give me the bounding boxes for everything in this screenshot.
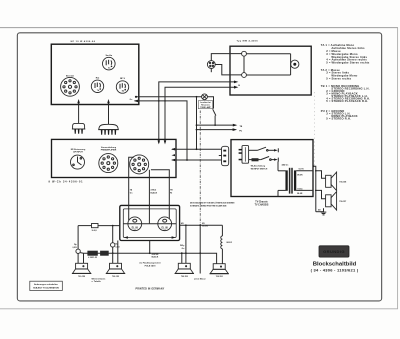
svg-text:BLUE: BLUE <box>297 193 303 195</box>
svg-text:SUBJECT TO ALTERATION: SUBJECT TO ALTERATION <box>33 287 59 290</box>
svg-text:BLACK: BLACK <box>151 192 158 195</box>
tube V11 output <box>150 217 177 232</box>
drawing border frame <box>17 33 381 301</box>
wire IF line 2 U2 to box U3 <box>164 86 239 145</box>
connector P3 DIN plug side view <box>219 146 229 165</box>
wire U5 bottom-center to bus <box>150 241 159 259</box>
wire A into U1 with junction dot <box>135 96 202 98</box>
switch S3 blade <box>213 109 216 115</box>
junction dot node TB <box>214 124 216 126</box>
page top edge <box>0 27 398 29</box>
wire V5 top to U2 node A <box>211 54 241 61</box>
wire chassis line continuation down <box>199 225 201 273</box>
svg-text:PREAMPLIFIER: PREAMPLIFIER <box>101 149 117 152</box>
stub V5 bottom <box>210 68 212 72</box>
double arrow inside U5 bottom <box>124 236 176 238</box>
svg-text:Gn-Ws: Gn-Ws <box>202 226 208 228</box>
block U4 TV chassis box <box>231 140 313 197</box>
transformer T1 <box>278 162 295 197</box>
wire speaker bus <box>80 253 216 264</box>
wire Rp2 vertical to speaker LS2 <box>112 226 114 264</box>
lamp L1 (circle with X) <box>202 94 208 100</box>
wire U5 left output with fuse F1 <box>78 224 120 233</box>
label J4 switch text <box>251 165 268 171</box>
page bottom edge <box>0 308 398 310</box>
chassis boundary dash-dot line <box>199 111 201 226</box>
svg-text:Rt: Rt <box>170 192 172 195</box>
block U2 tuner box <box>230 46 311 95</box>
junction dot on pin1 wire <box>196 148 198 150</box>
node stub at U4 right edge <box>313 165 315 167</box>
svg-text:34Ω Gn: 34Ω Gn <box>282 163 290 166</box>
svg-text:TB: TB <box>240 126 243 128</box>
wire P2 to U1 with up arrow <box>107 99 110 124</box>
note viewing direction (2 lines) <box>190 202 235 208</box>
scan artifact dotted line <box>314 92 316 168</box>
svg-text:5 = STEREO R.H.: 5 = STEREO R.H. <box>326 117 351 121</box>
tube V8 preamplifier <box>99 146 118 173</box>
svg-text:TUNE LAMP: TUNE LAMP <box>200 106 211 109</box>
svg-text:Rat: Rat <box>96 77 100 80</box>
svg-text:Si 0,8: Si 0,8 <box>92 230 97 232</box>
wire T1 secondary top lead <box>296 170 313 172</box>
wire PU arrow <box>197 128 243 132</box>
svg-text:BLACK: BLACK <box>152 256 159 259</box>
svg-text:NF-Entzerrung: NF-Entzerrung <box>71 148 86 151</box>
box subject to alteration <box>30 281 63 290</box>
wire junction vertical at V6 <box>290 54 292 75</box>
svg-text:TB-Anschaltung: TB-Anschaltung <box>251 165 266 168</box>
svg-text:Gl: Gl <box>238 85 240 87</box>
label 4 ohm at U5 right <box>181 222 184 225</box>
terminal circle Rp2 <box>111 243 121 249</box>
wire IF line 1 U2 to box U3 <box>158 81 239 145</box>
tube V3 (Ratio) <box>91 77 103 93</box>
wire TB arrow <box>197 124 243 128</box>
svg-text:L 5031-23: L 5031-23 <box>88 257 98 259</box>
arrow chevrons mid <box>172 154 176 156</box>
speaker LS4 <box>210 264 229 279</box>
junction dot at chassis line <box>199 224 201 226</box>
svg-text:PU: PU <box>239 130 242 132</box>
speaker LS2 <box>106 263 125 278</box>
wire U3 to U5 drop 3 <box>151 170 173 219</box>
svg-text:4Ω: 4Ω <box>318 208 321 211</box>
svg-text:7b: 7b <box>97 90 100 92</box>
svg-text:Gn: Gn <box>182 248 185 250</box>
wire label Diff at U1 right edge <box>130 99 133 101</box>
wire LS3 drop <box>180 225 186 263</box>
svg-text:Bereich: Bereich <box>66 75 75 77</box>
svg-text:700-157: 700-157 <box>339 201 346 203</box>
junction dots on wire B crossings <box>158 100 166 102</box>
svg-text:700-155: 700-155 <box>181 276 188 278</box>
svg-text:POLE 1470: POLE 1470 <box>145 264 157 267</box>
svg-text:PRINTED IN GERMANY: PRINTED IN GERMANY <box>136 288 165 291</box>
resistor R2 <box>100 251 109 256</box>
block U5 output stage box (double border) <box>120 205 180 240</box>
tube V4 (NF) <box>116 78 128 93</box>
svg-text:Sw-Ha: Sw-Ha <box>105 55 112 57</box>
label at junction <box>202 223 208 228</box>
switch S2 in U4 <box>249 157 279 162</box>
label U2 type number <box>237 40 259 43</box>
svg-text:0,5Ω: 0,5Ω <box>72 247 77 249</box>
svg-text:5 = Stereo rechts: 5 = Stereo rechts <box>326 77 351 81</box>
label U3 type number <box>49 180 84 183</box>
junction dots on return vertical <box>315 170 317 191</box>
wire U5 bottom-left to LS2 <box>117 241 119 264</box>
connector P1 (3-pin plug) <box>72 123 85 133</box>
junction dots on vertical <box>196 124 198 130</box>
wire U3 to U5 drop 1 <box>129 157 134 220</box>
svg-text:TA: TA <box>130 189 133 192</box>
svg-text:Änderungen vorbehalten: Änderungen vorbehalten <box>34 283 58 286</box>
svg-text:4 x Flachlautsprecher: 4 x Flachlautsprecher <box>139 261 161 264</box>
svg-text:Gn: Gn <box>130 99 133 101</box>
svg-text:TV CHASSIS: TV CHASSIS <box>255 203 269 206</box>
svg-text:4 SPKR: 4 SPKR <box>152 253 159 256</box>
svg-text:SCHEMATIC VIEWED FROM THE SOLD: SCHEMATIC VIEWED FROM THE SOLDER SIDE <box>190 205 227 208</box>
wire node A to tube V6 <box>246 53 290 55</box>
svg-text:8b: 8b <box>122 91 125 93</box>
wire T1 secondary bottom lead <box>296 189 313 191</box>
svg-text:700-153: 700-153 <box>112 276 119 278</box>
svg-text:TB: TB <box>170 190 173 192</box>
svg-text:6a: 6a <box>108 67 111 69</box>
svg-text:Gn: Gn <box>130 193 133 195</box>
ground symbol right <box>316 208 327 215</box>
wire U5 right output <box>180 224 223 226</box>
svg-text:Ws/Rt: Ws/Rt <box>297 174 303 177</box>
wire U3 to U5 drop 2 <box>149 170 157 224</box>
wire P1 to U1 with up arrow <box>77 99 80 123</box>
speaker LS6 <box>326 192 347 211</box>
wire plug P3 pin3 to U3 (left arrow) <box>171 159 222 162</box>
wire V5 right to U2 node B <box>215 65 241 75</box>
speaker LS5 <box>326 172 347 191</box>
speaker LS3 <box>175 263 194 278</box>
wire into speaker LS5 <box>316 171 326 178</box>
svg-text:5 = Wiedergabe Stereo rechts: 5 = Wiedergabe Stereo rechts <box>326 61 370 65</box>
wire S1 feeds <box>78 253 83 263</box>
svg-text:700-158: 700-158 <box>339 181 346 183</box>
svg-text:Gn/Ye: Gn/Ye <box>299 169 304 171</box>
tube V9 driver <box>130 155 149 174</box>
block U3 preamplifier box <box>52 139 177 177</box>
note printed in germany <box>136 288 165 291</box>
svg-text:( 34 - 4306 - 1103/621 ): ( 34 - 4306 - 1103/621 ) <box>311 267 359 272</box>
wire lamp to switch S3 <box>207 97 213 109</box>
junction dot LS3 feed <box>185 224 187 226</box>
wire switch S3 to node TB <box>214 116 216 126</box>
svg-text:4Ω: 4Ω <box>181 222 184 225</box>
svg-text:WGy: WGy <box>180 245 185 247</box>
label at U2 input <box>238 85 240 87</box>
note flat speakers <box>139 261 161 267</box>
label U1 type number <box>71 40 96 43</box>
wire color labels at T1 <box>297 169 304 196</box>
label resistors <box>88 257 98 259</box>
note further data <box>92 277 107 283</box>
svg-text:Ye/Gn: Ye/Gn <box>297 189 303 191</box>
resistor R4 in U4 <box>252 158 259 161</box>
svg-text:700-152: 700-152 <box>216 276 223 278</box>
wire LS3 bus drop <box>181 252 183 263</box>
svg-text:700-159: 700-159 <box>78 276 85 278</box>
tube V7 AF input <box>71 148 86 169</box>
title drawing number <box>311 267 359 272</box>
tube V1 (tuning indicator, 9 pins) <box>61 75 80 96</box>
svg-text:Rp: Rp <box>74 244 77 246</box>
tube V10 output <box>123 217 149 232</box>
wire between node A and node B <box>243 56 245 73</box>
svg-text:5 = STEREO PLAYBACK R.H.: 5 = STEREO PLAYBACK R.H. <box>326 99 368 103</box>
choke L1 <box>221 225 233 263</box>
wire return vertical right of U4 <box>313 166 315 211</box>
title Blockschaltbild <box>313 262 357 268</box>
junction dots on bus <box>112 252 201 254</box>
svg-text:9Ω: 9Ω <box>202 223 205 225</box>
tube V5 mixer <box>207 61 215 69</box>
svg-text:AF INPUT: AF INPUT <box>73 151 83 154</box>
speaker LS1 <box>72 263 91 278</box>
label above transformer <box>282 163 290 166</box>
label chassis ground <box>194 277 206 280</box>
switch S1 in U4 <box>249 147 279 152</box>
resistor R1 <box>87 251 97 256</box>
block U1 IF amplifier box <box>51 44 139 104</box>
svg-text:Leiste Masse: Leiste Masse <box>194 277 206 280</box>
svg-text:TV-Chassis: TV-Chassis <box>255 201 268 203</box>
node A terminal circle in U2 <box>242 51 247 56</box>
label U4 TV chassis <box>255 201 269 206</box>
connector J4 socket in U4 <box>239 146 249 164</box>
svg-text:9 W-Ch 34-4306-01: 9 W-Ch 34-4306-01 <box>49 180 84 183</box>
svg-text:4 Watt: 4 Watt <box>151 189 157 192</box>
wire node B to tube V6 <box>246 74 290 76</box>
legend pin list <box>321 43 370 120</box>
svg-text:GRUNDIG: GRUNDIG <box>323 249 345 254</box>
wire drop to terminal Rp1 <box>77 226 79 250</box>
svg-text:Typ MW 4-4306: Typ MW 4-4306 <box>237 40 259 43</box>
page right edge <box>397 28 399 309</box>
terminal circle Rp1 <box>72 244 80 253</box>
svg-text:Weitere Daten: Weitere Daten <box>92 277 107 280</box>
svg-text:NF-V: NF-V <box>120 78 126 80</box>
svg-text:HF 10 W-4306-66: HF 10 W-4306-66 <box>71 40 96 43</box>
junction dot lamp node <box>196 96 198 98</box>
wire plug P3 pin1 to U3 (left arrow) <box>171 148 222 151</box>
svg-text:Vorverstärkung: Vorverstärkung <box>101 146 117 149</box>
junction dot left drop <box>112 225 114 227</box>
wire into speaker LS6 <box>316 190 326 198</box>
tube V6 oscillator <box>291 60 299 68</box>
wire vertical lamp node down to U3 wire <box>196 97 198 149</box>
wire B into U1 (left arrow) <box>134 100 187 160</box>
connector P2 (5-pin plug) <box>98 124 119 134</box>
label box for lamp L1 <box>198 101 212 109</box>
tube V2 (Sw-Ha) <box>103 55 116 70</box>
junction dot wire B end <box>186 159 188 161</box>
svg-text:800 Ω: 800 Ω <box>227 242 233 244</box>
svg-text:TB INPUT SWITCH: TB INPUT SWITCH <box>251 168 268 170</box>
node B terminal circle in U2 <box>242 73 247 78</box>
logo badge <box>319 246 349 257</box>
svg-text:DIE SCHALTUNG IST VON DER LÖTS: DIE SCHALTUNG IST VON DER LÖTSEITE AUS G… <box>190 202 235 205</box>
svg-text:s. Tabelle: s. Tabelle <box>92 281 102 283</box>
